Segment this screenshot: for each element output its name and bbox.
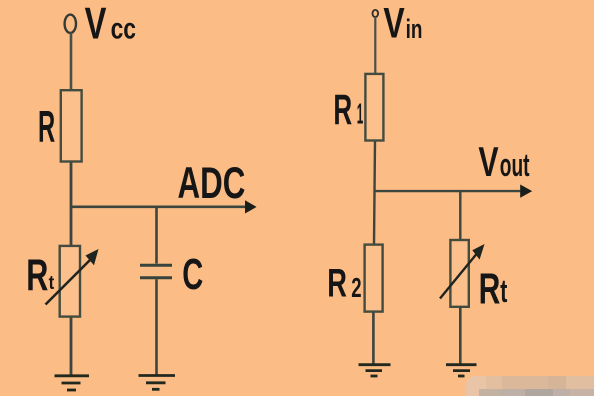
svg-text:in: in — [406, 14, 423, 44]
svg-text:ADC: ADC — [178, 159, 246, 208]
svg-text:R: R — [327, 260, 347, 305]
svg-text:V: V — [478, 138, 498, 185]
svg-text:R: R — [479, 265, 501, 314]
svg-text:R: R — [26, 251, 48, 300]
svg-text:R: R — [333, 87, 352, 134]
svg-text:V: V — [85, 0, 107, 48]
svg-text:2: 2 — [351, 272, 361, 303]
svg-text:V: V — [383, 0, 405, 48]
svg-text:t: t — [500, 273, 507, 309]
svg-text:cc: cc — [111, 12, 136, 45]
svg-text:R: R — [38, 103, 55, 152]
svg-text:out: out — [500, 147, 530, 183]
svg-text:C: C — [182, 250, 203, 299]
svg-text:t: t — [49, 273, 55, 294]
svg-text:1: 1 — [357, 99, 364, 131]
